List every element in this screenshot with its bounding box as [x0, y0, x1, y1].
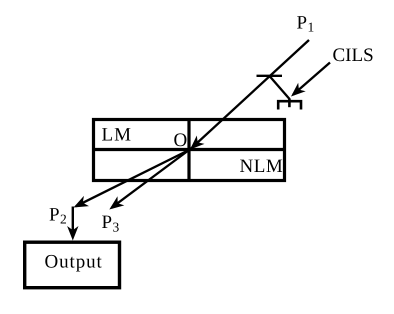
svg-text:1: 1 [308, 19, 315, 34]
vertical divider [187, 120, 190, 181]
lens tick [257, 75, 283, 77]
svg-text:Output: Output [45, 252, 103, 273]
svg-text:LM: LM [102, 124, 133, 145]
arrow CILS pointer [293, 63, 330, 95]
horizontal divider [94, 148, 285, 151]
arrowhead at node O [190, 136, 205, 150]
svg-text:O: O [174, 130, 188, 151]
wire V arm to CILS vertex [270, 76, 290, 99]
beam P3 [112, 150, 190, 208]
svg-text:CILS: CILS [333, 45, 374, 66]
CILS component symbol [278, 101, 301, 109]
svg-text:P: P [49, 205, 60, 226]
beam P1 line [190, 40, 309, 150]
svg-text:2: 2 [60, 212, 67, 227]
svg-text:P: P [297, 12, 308, 33]
beam P2 diagonal [76, 150, 189, 206]
svg-text:NLM: NLM [240, 156, 284, 177]
output box [25, 242, 120, 288]
box LM/NLM module [94, 120, 285, 181]
svg-text:3: 3 [113, 220, 120, 235]
wire P2 vertical drop [72, 207, 74, 231]
svg-text:P: P [102, 212, 113, 233]
